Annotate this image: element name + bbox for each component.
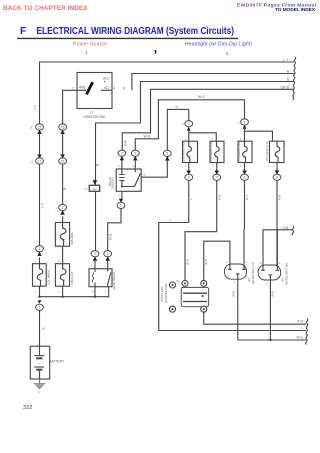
svg-text:B: B (287, 78, 290, 82)
svg-text:W-B: W-B (232, 291, 236, 297)
svg-text:W-B: W-B (109, 234, 113, 240)
fuse HEAD LH LWR (209, 137, 224, 168)
svg-text:ACC: ACC (103, 77, 110, 81)
node inline connector 1H on col3 (84, 180, 99, 191)
svg-text:1: 1 (240, 137, 242, 141)
node column2 connector pair row1 (59, 124, 67, 164)
svg-text:2: 2 (107, 252, 109, 256)
svg-text:2: 2 (212, 164, 214, 168)
svg-text:3: 3 (105, 289, 107, 293)
svg-text:CONNECTOR: CONNECTOR (164, 283, 168, 303)
ground symbol (34, 379, 46, 393)
svg-text:W-R: W-R (204, 258, 208, 265)
svg-text:W-G: W-G (297, 336, 304, 340)
node battery connector (36, 300, 44, 310)
node connector col2 above AM1 fuse (55, 204, 66, 222)
node coil return connector (117, 199, 125, 209)
dim-dip relay switch feed connector (131, 150, 139, 169)
svg-text:15A HEAD (RH): 15A HEAD (RH) (237, 141, 241, 162)
wire between col2 fuses (62, 246, 64, 264)
svg-text:4: 4 (113, 86, 115, 90)
node column1 connector pair row1 (30, 124, 44, 164)
svg-text:15A HEAD (LH): 15A HEAD (LH) (265, 141, 269, 161)
wire fuse2 out to junction connector (185, 180, 217, 281)
svg-text:.: . (165, 52, 166, 57)
svg-text:2: 2 (118, 194, 120, 198)
fuse HEAD RH LWR (181, 137, 197, 168)
svg-text:B: B (63, 188, 67, 190)
svg-text:2: 2 (134, 152, 136, 156)
svg-text:RELAY: RELAY (108, 176, 112, 186)
svg-text:6: 6 (123, 86, 125, 90)
relay output connector to G line (141, 150, 171, 177)
svg-text:40A AM1: 40A AM1 (70, 232, 74, 245)
wire B line 3 to head relay (96, 82, 295, 251)
svg-text:2: 2 (188, 122, 190, 126)
wire fuse1 out to L line (159, 180, 306, 330)
fuse HEAD LH UPR (265, 137, 284, 168)
node fuse2 out connector (213, 163, 221, 181)
wire GR-B line 4 to dim-dip relay coil (122, 89, 294, 150)
wire G-B branch to off page (277, 229, 292, 231)
svg-text:W-R: W-R (185, 258, 189, 265)
svg-text:6: 6 (39, 306, 41, 310)
svg-text:2: 2 (276, 176, 278, 180)
svg-text:2: 2 (182, 122, 184, 126)
wire relay coil return (121, 191, 123, 198)
svg-text:3: 3 (132, 164, 134, 168)
node fuse1 out connector (185, 163, 193, 181)
svg-text:1: 1 (35, 290, 37, 294)
wire fuse1/2 feed branch (189, 131, 217, 142)
svg-text:HEADLIGHT RH: HEADLIGHT RH (285, 263, 289, 285)
svg-text:G-B: G-B (217, 195, 221, 200)
wire fuse3 out to headlight LH (243, 180, 246, 264)
svg-text:Headlight (w/ Dim-Dip Light): Headlight (w/ Dim-Dip Light) (185, 42, 252, 48)
node fuse feed connector left pair (182, 121, 192, 131)
svg-text:17: 17 (38, 159, 42, 163)
svg-text:2: 2 (226, 51, 229, 56)
svg-text:2: 2 (266, 281, 268, 285)
svg-text:R-W: R-W (297, 319, 303, 323)
svg-text:1H: 1H (93, 187, 97, 191)
svg-text:2: 2 (234, 281, 236, 285)
svg-text:2: 2 (188, 176, 190, 180)
svg-text:2.0L MAIN: 2.0L MAIN (47, 270, 51, 285)
svg-text:F: F (20, 26, 26, 37)
relay HT/DIM (dim-dip) (108, 169, 141, 198)
svg-text:1J: 1J (30, 159, 34, 163)
svg-text:BACK TO CHAPTER INDEX: BACK TO CHAPTER INDEX (3, 5, 88, 12)
svg-text:2: 2 (72, 86, 74, 90)
svg-text:J/C: J/C (176, 279, 180, 283)
svg-text:1: 1 (185, 137, 187, 141)
svg-text:B: B (96, 164, 100, 166)
svg-text:2: 2 (55, 206, 57, 210)
wire battery feed (39, 310, 41, 346)
node connector head relay pin2 (91, 251, 99, 269)
svg-text:2: 2 (238, 120, 240, 124)
node fuse feed connector right pair (238, 119, 248, 129)
svg-text:1: 1 (212, 137, 214, 141)
svg-text:2: 2 (91, 264, 93, 268)
svg-text:L-Y: L-Y (33, 104, 37, 110)
svg-text:AM1: AM1 (79, 85, 86, 89)
svg-text:GR-B: GR-B (281, 85, 290, 89)
wire fuse4 out to headlight RH (276, 180, 278, 265)
svg-text:1: 1 (32, 247, 34, 251)
wire B line 2 (132, 74, 294, 91)
svg-text:BATTERY: BATTERY (49, 360, 65, 364)
svg-text:15A HEAD (LH): 15A HEAD (LH) (209, 141, 213, 161)
svg-text:1: 1 (272, 137, 274, 141)
svg-text:IG1: IG1 (104, 86, 109, 90)
node fuse3 out connector (241, 163, 249, 181)
node connector col1 above MAIN fuse (32, 246, 43, 264)
fuse HEAD RH UPR (237, 137, 252, 168)
svg-text:2: 2 (244, 120, 246, 124)
svg-text:ELECTRICAL WIRING DIAGRAM (Sys: ELECTRICAL WIRING DIAGRAM (System Circui… (37, 26, 235, 37)
svg-text:L: L (169, 218, 171, 222)
wire fuse3/4 feed branch (245, 129, 273, 141)
svg-text:1: 1 (118, 164, 120, 168)
svg-text:5: 5 (144, 173, 146, 177)
dim-dip relay coil feed connector (118, 150, 126, 169)
svg-text:1E: 1E (30, 125, 34, 129)
svg-text:HEAD RELAY: HEAD RELAY (112, 271, 116, 290)
svg-text:Power Source: Power Source (73, 42, 107, 48)
svg-text:1: 1 (245, 260, 247, 264)
svg-text:2: 2 (94, 252, 96, 256)
svg-text:R-Y: R-Y (245, 195, 249, 200)
wire junction connector bottom to R-W line (204, 312, 306, 325)
fusible link MAIN (33, 260, 51, 294)
svg-text:R-B: R-B (278, 195, 282, 200)
relay HEAD (89, 269, 116, 294)
headlight RH bulb (258, 261, 288, 285)
svg-text:1: 1 (244, 176, 246, 180)
svg-text:19: 19 (61, 159, 65, 163)
fuse AM1 col2 (55, 223, 74, 247)
wire branch to headlight RH left pin (263, 230, 277, 265)
svg-text:13: 13 (38, 125, 42, 129)
svg-text:L: L (189, 198, 193, 200)
battery (30, 346, 65, 379)
node fuse4 out connector (273, 163, 281, 181)
wire column1 to fuse MAIN (39, 164, 41, 246)
svg-text:W-G: W-G (144, 134, 151, 138)
node bus junction dots (38, 296, 40, 298)
node break G-B (292, 226, 294, 235)
node connector head relay pin1 (104, 251, 112, 269)
svg-text:3: 3 (226, 260, 228, 264)
svg-text:G-B: G-B (123, 140, 127, 146)
wire ground bus (39, 286, 109, 297)
svg-text:7: 7 (216, 176, 218, 180)
svg-text:L-Y: L-Y (283, 58, 289, 62)
svg-text:1: 1 (104, 264, 106, 268)
svg-text:2: 2 (185, 164, 187, 168)
wire column2 to fuse AM1 (62, 164, 64, 205)
svg-text:2: 2 (62, 206, 64, 210)
svg-text:TO MODEL INDEX: TO MODEL INDEX (275, 7, 316, 13)
svg-text:1: 1 (279, 261, 281, 265)
svg-text:W-G: W-G (198, 95, 205, 99)
node break L (306, 319, 308, 345)
fuse ALT col2 (55, 260, 74, 294)
svg-text:L: L (302, 326, 304, 330)
junction connector (dim-dip) (160, 279, 209, 312)
svg-text:B: B (43, 327, 45, 331)
svg-text:2: 2 (273, 164, 275, 168)
svg-text:B: B (287, 70, 290, 74)
svg-text:IGNITION SW: IGNITION SW (84, 115, 106, 119)
svg-text:2: 2 (39, 247, 41, 251)
svg-text:2: 2 (240, 164, 242, 168)
wire junction connector out 2 to headlight LH pin (204, 241, 230, 281)
svg-text:1: 1 (58, 260, 60, 264)
svg-text:7: 7 (120, 204, 122, 208)
wire coil return to head relay (108, 208, 121, 250)
node break L-Y (293, 57, 296, 100)
svg-text:15: 15 (61, 125, 65, 129)
svg-text:W-B: W-B (270, 291, 274, 297)
headlight LH bulb (225, 260, 256, 285)
svg-text:10: 10 (84, 187, 88, 191)
svg-text:HEADLIGHT LH: HEADLIGHT LH (251, 262, 255, 284)
title underline (17, 37, 238, 39)
svg-text:G-B: G-B (283, 226, 289, 230)
svg-text:322: 322 (23, 405, 32, 411)
svg-text:3: 3 (260, 261, 262, 265)
ignition switch I7 (72, 73, 125, 120)
svg-text:1: 1 (85, 50, 88, 55)
svg-text:2: 2 (121, 152, 123, 156)
wire W-G main feed (135, 100, 244, 151)
wire headlight grounds to W-G line (238, 279, 306, 340)
svg-text:4: 4 (92, 289, 94, 293)
svg-text:15A HEAD (RH): 15A HEAD (RH) (181, 141, 185, 162)
svg-text:2: 2 (166, 152, 168, 156)
svg-text:1: 1 (58, 290, 60, 294)
svg-text:100A ALT: 100A ALT (70, 272, 74, 285)
svg-text:1: 1 (35, 260, 37, 264)
wire L-Y top feed line (40, 62, 295, 127)
wire ignition AM1 to column 2 (63, 90, 77, 123)
svg-text:G: G (176, 105, 179, 109)
svg-text:L-Y: L-Y (41, 202, 45, 208)
wire G feed to fuses 1-2 (167, 109, 188, 150)
